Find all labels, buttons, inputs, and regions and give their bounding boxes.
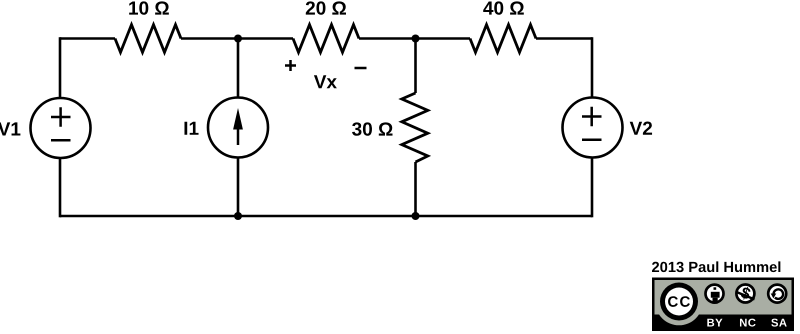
- SA icon arrowhead: [771, 294, 777, 299]
- wire right rail top: [591, 37, 594, 97]
- BY icon person torso: [711, 292, 720, 298]
- resistor R1 10 ohm: [115, 25, 181, 53]
- label V1: [0, 122, 20, 135]
- wire 30 ohm column top: [414, 39, 417, 94]
- V2 plus sign: [582, 107, 602, 126]
- wire I1 column bottom: [237, 158, 240, 217]
- label 40 ohm: [483, 1, 524, 14]
- BY icon person legs: [713, 298, 718, 304]
- wire 30 ohm column bottom: [414, 162, 417, 216]
- voltage source V1: [31, 98, 91, 158]
- wire bottom rail: [60, 215, 592, 218]
- wire from 20 ohm to 40 ohm through node B: [359, 37, 470, 40]
- label I1: [184, 122, 198, 135]
- strip label BY: [707, 319, 722, 327]
- wire right rail bottom: [591, 158, 594, 218]
- resistor R4 30 ohm (vertical): [402, 93, 428, 162]
- V1 minus sign: [51, 139, 71, 142]
- label V2: [630, 122, 652, 135]
- wire from 40 ohm to top-right corner: [536, 37, 592, 40]
- node C junction dot bottom of I1: [234, 212, 242, 220]
- SA icon arrow arc: [774, 289, 784, 299]
- CC logo letters: [668, 296, 690, 307]
- resistor R3 40 ohm: [470, 25, 536, 53]
- CC logo inner disc: [665, 288, 693, 316]
- voltage source V2: [563, 98, 623, 158]
- Vx minus sign: [355, 67, 367, 70]
- node D junction dot bottom of 30 ohm: [412, 212, 420, 220]
- NC icon circle: [736, 285, 754, 303]
- strip label NC: [740, 319, 756, 327]
- label Vx: [314, 75, 337, 88]
- wire left rail bottom: [59, 158, 62, 217]
- wire left rail top (V1 to node): [59, 37, 62, 98]
- credit text 2013 Paul Hummel: [652, 261, 780, 272]
- NC icon dollar glyph: [740, 286, 752, 301]
- CC logo outer ring: [660, 283, 698, 321]
- wire I1 column top: [237, 39, 240, 98]
- CC license badge frame: [652, 278, 794, 332]
- current source I1: [208, 98, 268, 158]
- label 20 ohm: [306, 1, 346, 14]
- node B junction dot top of 30 ohm: [412, 35, 420, 43]
- label 30 ohm: [352, 122, 392, 135]
- NC icon slash: [736, 292, 754, 300]
- Vx plus sign: [285, 60, 296, 71]
- BY icon circle: [706, 285, 724, 303]
- wire top-left from V1 to 10 ohm resistor: [60, 37, 115, 40]
- I1 arrow: [237, 126, 240, 145]
- V1 plus sign: [51, 107, 71, 126]
- strip label SA: [771, 319, 786, 327]
- CC license badge gray field: [655, 280, 792, 315]
- badge border redraw: [653, 279, 793, 330]
- SA icon circle: [768, 285, 786, 303]
- resistor R2 20 ohm: [293, 25, 359, 53]
- V2 minus sign: [582, 138, 602, 141]
- label 10 ohm: [129, 1, 169, 14]
- wire from 10 ohm to 20 ohm through node A: [181, 37, 293, 40]
- CC logo gray halo: [655, 278, 703, 326]
- node A junction dot top of I1: [234, 35, 242, 43]
- BY icon person head: [714, 287, 717, 290]
